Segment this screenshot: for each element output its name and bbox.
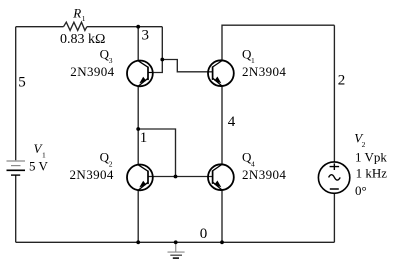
- svg-text:2N3904: 2N3904: [242, 167, 286, 182]
- svg-text:0: 0: [200, 226, 208, 242]
- svg-text:2N3904: 2N3904: [70, 167, 114, 182]
- svg-text:0°: 0°: [355, 183, 367, 198]
- svg-text:1: 1: [82, 14, 86, 23]
- svg-text:2N3904: 2N3904: [242, 64, 286, 79]
- svg-text:4: 4: [228, 114, 236, 130]
- svg-text:5: 5: [18, 74, 26, 90]
- svg-text:0.83 kΩ: 0.83 kΩ: [60, 32, 105, 47]
- svg-text:1: 1: [140, 130, 148, 146]
- svg-text:2: 2: [362, 140, 366, 149]
- svg-text:R: R: [72, 5, 81, 20]
- svg-text:3: 3: [142, 28, 150, 44]
- svg-text:1 kHz: 1 kHz: [356, 166, 388, 181]
- svg-text:5 V: 5 V: [29, 159, 49, 174]
- svg-text:2: 2: [338, 73, 346, 89]
- svg-text:2N3904: 2N3904: [70, 64, 114, 79]
- svg-text:1 Vpk: 1 Vpk: [355, 150, 387, 165]
